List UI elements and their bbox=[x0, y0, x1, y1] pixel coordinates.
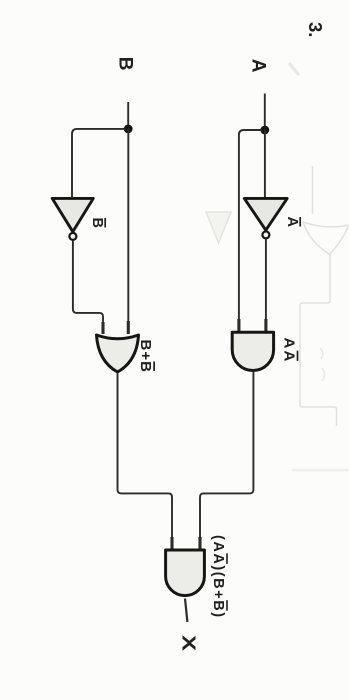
svg-text:B: B bbox=[115, 57, 136, 71]
svg-text:AA: AA bbox=[281, 338, 298, 364]
label: net B̅ at inverter U2 output bbox=[89, 218, 105, 228]
inverter U2 (NOT gate on B) bbox=[52, 198, 93, 240]
svg-text:B+B: B+B bbox=[137, 340, 154, 373]
svg-text:B: B bbox=[89, 218, 105, 228]
wire: A junction to inverter U1 input bbox=[264, 130, 266, 198]
wire: B branch to inverter U2 input bbox=[72, 129, 126, 198]
label: expression (AA̅)(B+B̅) at final gate bbox=[210, 535, 227, 619]
label: net A̅ at inverter U1 output bbox=[284, 217, 300, 228]
svg-text:(AA)(B+B): (AA)(B+B) bbox=[210, 535, 226, 619]
wire: input A vertical segment bbox=[264, 94, 266, 131]
OR gate U4 (B+B̅) bbox=[97, 335, 139, 372]
label: input B bbox=[115, 57, 136, 71]
svg-text:A: A bbox=[284, 217, 300, 228]
label: net AA̅ at AND U3 output bbox=[281, 338, 298, 364]
wire: OR U4 output down and right to final AND U5 left input bbox=[118, 373, 173, 550]
label: problem number 3. bbox=[305, 22, 326, 37]
label: output X bbox=[179, 635, 199, 651]
svg-text:X: X bbox=[179, 635, 199, 651]
label: input A bbox=[248, 59, 269, 73]
inverter U1 (NOT gate on A) bbox=[244, 198, 287, 238]
wire: output X stub bbox=[185, 599, 187, 623]
svg-text:3.: 3. bbox=[305, 22, 326, 37]
wire: A branch to AND gate U3 left input bbox=[239, 130, 262, 332]
label: net B+B̅ at OR U4 output bbox=[137, 340, 154, 373]
wire: B junction to OR gate U4 right input bbox=[127, 129, 129, 334]
wire: inverter U1 output to AND gate U3 right input bbox=[265, 239, 267, 332]
AND gate U5 (final output gate) bbox=[166, 550, 205, 596]
node: junction on input A bbox=[260, 126, 269, 135]
node: junction on input B bbox=[124, 124, 133, 133]
wire: input B vertical segment bbox=[127, 102, 129, 129]
svg-text:A: A bbox=[248, 59, 269, 73]
wire: AND U3 output down and left to final AND U5 right input bbox=[200, 371, 253, 549]
wire: inverter U2 output jog to OR gate U4 left input bbox=[73, 240, 103, 334]
AND gate U3 (A·A̅) bbox=[232, 332, 273, 370]
